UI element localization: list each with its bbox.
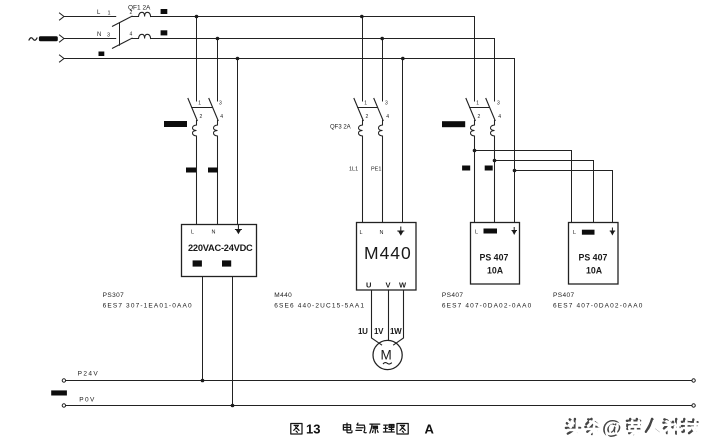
svg-text:3: 3 (497, 101, 500, 107)
svg-text:V: V (386, 281, 391, 290)
svg-text:4: 4 (220, 114, 223, 120)
svg-text:3: 3 (107, 33, 110, 39)
svg-text:1V: 1V (374, 327, 384, 336)
svg-text:L: L (97, 10, 101, 16)
svg-text:1: 1 (108, 11, 111, 17)
svg-text:PS 407: PS 407 (579, 253, 608, 263)
svg-text:10A: 10A (586, 266, 603, 276)
svg-text:PS307: PS307 (103, 292, 125, 299)
svg-text:P0V: P0V (79, 397, 96, 404)
svg-text:N: N (212, 230, 216, 236)
svg-text:L: L (475, 230, 478, 236)
svg-text:6ES7 407-0DA02-0AA0: 6ES7 407-0DA02-0AA0 (553, 303, 644, 310)
svg-text:3: 3 (385, 101, 388, 107)
svg-text:2: 2 (200, 114, 203, 120)
svg-text:1W: 1W (390, 327, 402, 336)
svg-text:P24V: P24V (78, 371, 100, 378)
svg-text:L: L (360, 230, 363, 236)
svg-text:1L1: 1L1 (349, 167, 358, 173)
svg-text:2: 2 (478, 114, 481, 120)
svg-text:N: N (380, 230, 384, 236)
svg-text:A: A (425, 422, 435, 437)
svg-text:PS 407: PS 407 (480, 253, 509, 263)
svg-text:PS407: PS407 (553, 292, 575, 299)
svg-text:M440: M440 (364, 243, 412, 263)
svg-text:220VAC-24VDC: 220VAC-24VDC (188, 243, 253, 253)
svg-text:1: 1 (198, 101, 201, 107)
svg-text:M440: M440 (274, 292, 292, 299)
svg-text:1: 1 (364, 101, 367, 107)
svg-text:1: 1 (476, 101, 479, 107)
svg-text:13: 13 (306, 422, 320, 437)
svg-text:W: W (399, 281, 407, 290)
svg-text:10A: 10A (487, 266, 504, 276)
svg-text:1U: 1U (358, 327, 368, 336)
svg-text:QF3 2A: QF3 2A (330, 124, 351, 130)
svg-text:2: 2 (366, 114, 369, 120)
svg-text:6ES7 407-0DA02-0AA0: 6ES7 407-0DA02-0AA0 (442, 303, 533, 310)
svg-text:PE1: PE1 (371, 167, 381, 173)
svg-text:L: L (573, 230, 576, 236)
svg-text:4: 4 (386, 114, 389, 120)
svg-text:U: U (366, 281, 371, 290)
svg-text:PS407: PS407 (442, 292, 464, 299)
svg-text:4: 4 (130, 32, 133, 38)
svg-text:L: L (191, 230, 194, 236)
svg-text:6ES7 307-1EA01-0AA0: 6ES7 307-1EA01-0AA0 (103, 303, 193, 310)
svg-text:M: M (381, 348, 392, 363)
svg-text:6SE6 440-2UC15-5AA1: 6SE6 440-2UC15-5AA1 (274, 303, 365, 310)
svg-text:4: 4 (498, 114, 501, 120)
svg-text:2: 2 (130, 10, 133, 16)
svg-text:3: 3 (219, 101, 222, 107)
svg-text:N: N (97, 32, 101, 38)
